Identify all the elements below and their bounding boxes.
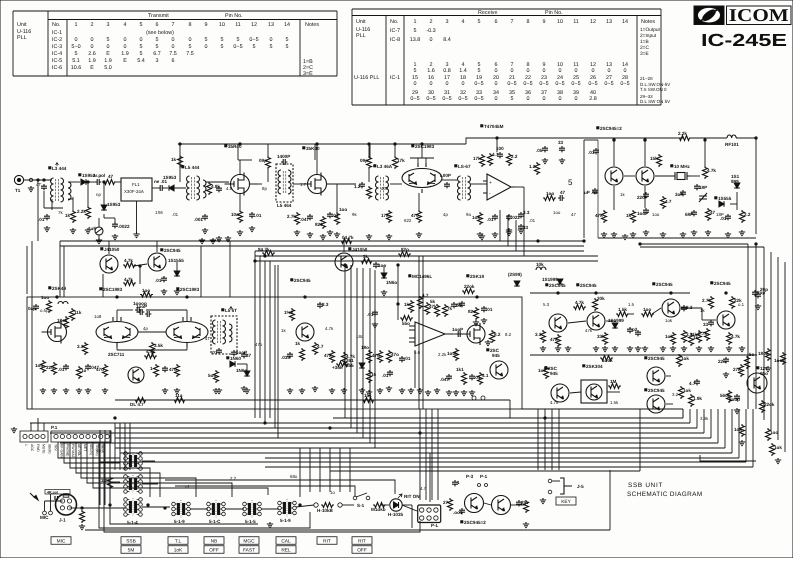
svg-text:5: 5 [511, 96, 514, 102]
diode D6 [174, 271, 180, 276]
svg-text:Notes: Notes [641, 19, 655, 25]
resistor R73 20k [593, 298, 598, 311]
resistor R89 100k [600, 356, 613, 361]
svg-text:2.2k: 2.2k [678, 131, 687, 136]
resistor R67 820 [474, 307, 479, 320]
svg-text:0: 0 [575, 68, 578, 74]
svg-text:40k: 40k [381, 186, 389, 191]
svg-text:47: 47 [571, 212, 576, 217]
svg-text:5-1-5: 5-1-5 [245, 519, 256, 524]
svg-text:1.6: 1.6 [427, 68, 435, 74]
svg-text:0: 0 [527, 68, 530, 74]
svg-text:5: 5 [286, 44, 289, 50]
svg-text:J41050: J41050 [104, 247, 120, 252]
svg-text:2SC1983: 2SC1983 [180, 287, 200, 292]
svg-text:.01: .01 [255, 213, 262, 218]
svg-text:1k: 1k [65, 213, 71, 218]
resistor R2 47 [103, 180, 116, 185]
resistor R32 84.7k [262, 251, 275, 256]
label box OFF2 [352, 546, 372, 554]
transformer L1 L3-444 [51, 178, 54, 202]
svg-text:84.7k: 84.7k [258, 247, 270, 252]
wire mid bus 4 [255, 255, 598, 257]
svg-text:47o: 47o [96, 367, 104, 372]
capacitor C31 .01 [725, 214, 731, 220]
wire bus left drops [59, 241, 61, 297]
svg-text:2SK304: 2SK304 [586, 364, 603, 369]
svg-text:1400P: 1400P [277, 154, 290, 159]
fet Q1 3SR40 [225, 173, 250, 196]
svg-text:-0.3: -0.3 [426, 28, 435, 34]
svg-text:2: 2 [91, 22, 94, 28]
svg-text:1k: 1k [281, 328, 286, 333]
wire strip drop 7 [93, 442, 268, 495]
svg-text:.01: .01 [487, 217, 494, 222]
resistor R95 220 [723, 357, 729, 363]
diode D2 1S953 [164, 187, 168, 189]
svg-text:1k: 1k [693, 335, 699, 340]
svg-text:33k: 33k [597, 334, 605, 339]
svg-text:1o8: 1o8 [94, 314, 102, 319]
svg-text:2.2k: 2.2k [77, 209, 86, 214]
svg-text:22o: 22o [718, 359, 726, 364]
svg-text:J41050: J41050 [352, 247, 368, 252]
resistor R78 22k [730, 296, 735, 309]
ground [408, 388, 414, 394]
svg-text:1ook: 1ook [602, 358, 613, 363]
resistor R98 560k [727, 390, 732, 403]
wire fet1 out [250, 183, 262, 185]
svg-text:4p: 4p [143, 326, 148, 331]
svg-text:82o: 82o [468, 309, 476, 314]
svg-text:L5 464: L5 464 [277, 203, 292, 208]
microphone connector J-1 [56, 494, 77, 515]
switch wafer S-1-A2 [129, 479, 131, 490]
svg-text:47: 47 [108, 174, 114, 179]
svg-text:05o: 05o [760, 371, 768, 376]
wire branch 35K40 [314, 144, 316, 160]
wire ift row feed [165, 480, 395, 494]
wire Q2 drain [316, 144, 318, 174]
fet Q10 2SK49 [42, 321, 67, 344]
wire bus y462 [100, 461, 746, 463]
resistor R55 4.7k [342, 352, 347, 365]
svg-text:8p: 8p [262, 186, 267, 191]
svg-text:OFF: OFF [209, 548, 219, 554]
wire bridge right [146, 309, 187, 311]
svg-text:1%k: 1%k [284, 310, 294, 315]
resistor R17 17k [480, 154, 485, 167]
svg-text:.01: .01 [58, 367, 65, 372]
fet Q24 2SK304 in box [581, 380, 607, 403]
ground [28, 186, 34, 192]
connector P-4 [418, 505, 441, 523]
vertical feed 180 [179, 144, 181, 182]
svg-text:5~0: 5~0 [71, 44, 80, 50]
label box LSB [121, 546, 141, 554]
svg-text:0: 0 [495, 96, 498, 102]
svg-text:3: 3 [156, 58, 159, 64]
transistor Q25 2SC945 [647, 367, 665, 385]
svg-text:0: 0 [575, 96, 578, 102]
label box USB [121, 537, 141, 545]
connector strip J2 [20, 431, 48, 442]
svg-text:8: 8 [189, 22, 192, 28]
resistor R45 3.3 [83, 342, 88, 355]
wire mid bus 2 [60, 245, 584, 247]
filter FL1 X30F-24A [121, 178, 152, 201]
capacitor C16 .022 [506, 214, 512, 220]
wire osc collector [613, 140, 615, 166]
wire top bus to right edge [736, 138, 756, 234]
resistor R6 100 [238, 210, 243, 223]
transformer T4 L3-46A [376, 176, 379, 200]
svg-text:0: 0 [91, 44, 94, 50]
resistor R15 470 [417, 210, 422, 223]
capacitor C54 .01 [469, 374, 475, 380]
resistor R50 500 [214, 370, 219, 383]
ground [540, 498, 546, 504]
capacitor C2 .01 [44, 214, 50, 220]
resistor R94 1.9k [689, 394, 694, 407]
svg-text:10a: 10a [231, 212, 239, 217]
resistor R53 1k [300, 348, 305, 361]
switch wafer S-1-D [248, 504, 250, 515]
svg-text:10.6: 10.6 [71, 65, 82, 71]
capacitor C42 [241, 352, 247, 358]
svg-text:5: 5 [478, 68, 481, 74]
svg-text:MC1496L: MC1496L [412, 274, 432, 279]
svg-text:H-1035: H-1035 [388, 512, 404, 517]
svg-text:1.9k: 1.9k [693, 396, 702, 401]
svg-text:0: 0 [189, 37, 192, 43]
resistor R29 20p [755, 292, 761, 298]
svg-text:PLL: PLL [356, 33, 366, 39]
resistor R62 4.7 [418, 296, 423, 309]
svg-text:3.3: 3.3 [686, 305, 693, 310]
svg-text:18P: 18P [716, 212, 724, 217]
svg-text:5-1-9: 5-1-9 [280, 518, 291, 523]
svg-text:220P: 220P [637, 195, 648, 200]
wire inner bias line [115, 399, 510, 401]
resistor R57 180 [367, 350, 372, 363]
svg-text:2.6: 2.6 [88, 51, 96, 57]
svg-text:0: 0 [172, 37, 175, 43]
wire bus y433 [50, 432, 704, 434]
svg-text:IC-6: IC-6 [52, 65, 62, 71]
wire top supply bus right [466, 138, 684, 144]
capacitor C36 .047 [85, 364, 91, 370]
svg-text:68P: 68P [685, 212, 693, 217]
resistor R60 550 [400, 316, 413, 321]
resistor R77 2.7k [709, 296, 714, 309]
svg-text:0~5: 0~5 [571, 81, 580, 87]
resistor R46 3.3k [150, 342, 155, 355]
svg-text:4.7k: 4.7k [550, 400, 559, 405]
svg-text:8oop: 8oop [729, 397, 740, 402]
svg-text:.001: .001 [194, 217, 203, 222]
wire q8 down [102, 274, 104, 297]
capacitor C63 1000P [135, 307, 141, 313]
label box T.L [168, 537, 188, 545]
svg-text:4.7: 4.7 [420, 486, 427, 491]
wire T4 out [390, 183, 402, 185]
svg-text:SSB: SSB [126, 539, 136, 545]
transistor Q18 2SC945 [490, 361, 508, 379]
transistor Q19 2SC945 [549, 314, 567, 332]
svg-text:5: 5 [75, 51, 78, 57]
wire bundle link right [509, 400, 511, 418]
dual transistor Q13 Q14 2SC711b [166, 317, 208, 347]
transistor Q16 2SC945 [296, 323, 314, 341]
resistor R80 2.7k [705, 328, 710, 341]
resistor R102 27 [448, 498, 453, 511]
svg-text:1ok: 1ok [538, 368, 546, 373]
resistor R87 3.3 [541, 330, 546, 343]
wire af mid bus [530, 354, 757, 356]
trimmer C29 [699, 193, 707, 202]
svg-text:47o: 47o [255, 342, 263, 347]
svg-text:T1: T1 [15, 188, 21, 193]
wire ellipse tops bridge [116, 310, 118, 321]
resistor R88 47k [556, 334, 561, 347]
svg-text:47o: 47o [391, 352, 399, 357]
svg-text:MIC: MIC [40, 515, 49, 520]
resistor network 1S1555 [336, 362, 349, 367]
svg-text:5.0: 5.0 [104, 65, 112, 71]
svg-text:1: 1 [457, 480, 460, 485]
resistor R51 100 top [140, 292, 153, 297]
svg-text:2op: 2op [757, 290, 765, 295]
svg-text:.01: .01 [404, 356, 411, 361]
svg-text:2SC945: 2SC945 [294, 278, 311, 283]
resistor R74 1.5k [616, 312, 629, 317]
transistor Q15 small [128, 367, 144, 383]
svg-text:2.2: 2.2 [744, 212, 751, 217]
svg-text:IC-3: IC-3 [52, 44, 62, 50]
ground [473, 320, 479, 326]
resistor R86 33k [603, 332, 608, 345]
ground row af [540, 346, 546, 352]
svg-text:Pin No.: Pin No. [225, 13, 243, 19]
svg-text:MET: MET [83, 444, 87, 451]
svg-text:1oo: 1oo [770, 430, 778, 435]
capacitor C45 47k [330, 350, 335, 363]
potentiometer VR2 H-10kB [314, 503, 318, 507]
label box REL [276, 546, 296, 554]
svg-text:1oo: 1oo [546, 191, 554, 196]
capacitor C17 100 [497, 152, 503, 158]
svg-text:.01: .01 [382, 373, 389, 378]
svg-text:3: 3 [446, 19, 449, 25]
svg-text:2SC1983: 2SC1983 [415, 144, 435, 149]
svg-text:1oo: 1oo [142, 288, 150, 293]
wire bundle verticals left [114, 423, 116, 470]
svg-text:5oo: 5oo [208, 373, 216, 378]
resistor R54 4.7 [313, 342, 318, 355]
svg-text:1: 1 [150, 366, 153, 371]
svg-text:RF101: RF101 [725, 142, 739, 147]
wire bus y458 [265, 457, 739, 459]
resistor R82 4.7k [727, 332, 732, 345]
resistor R69 100k [454, 348, 459, 361]
resistor R28 2.2 [740, 210, 745, 223]
svg-text:22ok: 22ok [764, 402, 775, 407]
svg-text:18P: 18P [699, 185, 707, 190]
svg-text:FWD: FWD [36, 444, 40, 452]
ground [11, 427, 17, 433]
label box RIT1 [317, 537, 337, 545]
capacitor C57 [635, 330, 641, 336]
svg-text:5: 5 [414, 28, 417, 34]
capacitor C52 100P [456, 331, 462, 337]
svg-text:35K40: 35K40 [306, 146, 320, 151]
svg-text:3.3: 3.3 [535, 332, 542, 337]
capacitor C46 .01 [399, 356, 405, 362]
carrier osc box [598, 140, 756, 238]
resistor R47 4.7k [144, 354, 157, 359]
svg-text:2SC945: 2SC945 [580, 283, 597, 288]
svg-text:4p: 4p [443, 212, 448, 217]
svg-text:0: 0 [75, 37, 78, 43]
svg-text:0ap: 0ap [28, 306, 36, 311]
svg-text:(2S99): (2S99) [508, 272, 522, 277]
wire bundle verticals mid [299, 448, 301, 492]
svg-text:1=B: 1=B [640, 39, 649, 45]
svg-text:IC-4: IC-4 [52, 51, 62, 57]
svg-text:7: 7 [511, 19, 514, 25]
svg-text:PW(NB): PW(NB) [65, 444, 69, 456]
svg-text:0~5: 0~5 [604, 81, 613, 87]
svg-text:1.2: 1.2 [354, 184, 361, 189]
resistor R107 DL4.7 [134, 398, 147, 403]
svg-text:8.2: 8.2 [494, 332, 501, 337]
svg-text:3.3: 3.3 [322, 302, 329, 307]
resistor R109 15k [362, 398, 375, 403]
capacitor C38 1000P [145, 311, 151, 317]
svg-text:FAST: FAST [243, 548, 255, 554]
svg-text:3=E: 3=E [640, 51, 649, 57]
svg-text:X30F-24A: X30F-24A [124, 189, 144, 194]
svg-text:FL1: FL1 [132, 182, 140, 187]
svg-text:9: 9 [543, 19, 546, 25]
wire T5 to opamp [471, 183, 487, 185]
capacitor C56 02 [627, 327, 633, 333]
wire pot wiring [342, 504, 354, 506]
svg-text:2.2k: 2.2k [438, 352, 447, 357]
svg-text:L00P: L00P [440, 173, 451, 178]
svg-text:5: 5 [221, 44, 224, 50]
wire vertical bundle 345 [344, 265, 346, 418]
svg-text:945: 945 [492, 353, 500, 358]
label box 10K [168, 546, 188, 554]
svg-text:12: 12 [251, 22, 257, 28]
capacitor C4 .01 [152, 187, 158, 189]
svg-text:5: 5 [189, 44, 192, 50]
svg-text:OFF: OFF [357, 548, 367, 554]
resistor R59 470 [387, 350, 392, 363]
resistor R8 2.7k [295, 212, 300, 225]
svg-text:470: 470 [411, 213, 419, 218]
svg-text:0: 0 [124, 37, 127, 43]
svg-text:PW MA2: PW MA2 [71, 444, 75, 457]
svg-text:0: 0 [495, 68, 498, 74]
svg-text:0~5: 0~5 [474, 96, 483, 102]
svg-text:0: 0 [124, 44, 127, 50]
svg-text:04.7k: 04.7k [342, 235, 354, 240]
svg-text:MUTE: MUTE [42, 444, 46, 454]
svg-text:7.5: 7.5 [186, 51, 194, 57]
wire vertical drops mid [254, 251, 256, 418]
resistor R100 3.2k [108, 476, 113, 489]
resistor R64 5k [435, 304, 440, 317]
svg-text:5: 5 [107, 37, 110, 43]
pin junction [29, 178, 32, 181]
shield box SSB IF section [27, 297, 522, 409]
svg-text:.047: .047 [300, 217, 309, 222]
svg-text:1.2: 1.2 [529, 164, 536, 169]
svg-text:1ook: 1ook [447, 351, 458, 356]
svg-text:5: 5 [140, 22, 143, 28]
svg-text:0: 0 [543, 96, 546, 102]
diode D4 1S555 [719, 201, 724, 207]
resistor R103 [524, 500, 529, 513]
resistor R18 4.7 [488, 153, 493, 166]
capacitor C24 uP.01 [592, 188, 598, 194]
svg-text:T.S SW.ON 0: T.S SW.ON 0 [640, 87, 667, 92]
wire 1496 out [453, 333, 462, 335]
resistor R33 04.7k [340, 239, 353, 244]
svg-text:5: 5 [156, 37, 159, 43]
svg-text:o.5p: o.5p [40, 308, 49, 313]
ground [479, 234, 485, 240]
capacitor C30 68P [691, 210, 697, 216]
svg-text:2=Input: 2=Input [640, 33, 657, 39]
capacitor C55 20p [752, 290, 758, 296]
ground [775, 458, 781, 464]
svg-text:D.L SW ON 5V: D.L SW ON 5V [640, 99, 670, 104]
resistor R52 1k [290, 308, 295, 321]
resistor R43 10 [77, 366, 82, 379]
svg-text:82o: 82o [401, 247, 409, 252]
ground [453, 390, 459, 396]
svg-text:IC-2: IC-2 [52, 37, 62, 43]
svg-text:RIT: RIT [358, 539, 366, 545]
svg-text:15k: 15k [650, 156, 658, 161]
transformer T5 LS-67 [458, 176, 461, 200]
capacitor C34 6.8p [33, 304, 39, 310]
svg-text:9k: 9k [352, 212, 357, 217]
svg-text:0: 0 [495, 81, 498, 87]
resistor R34 4.7k [123, 263, 136, 268]
wire right hook [700, 455, 756, 461]
svg-text:P-L: P-L [431, 523, 439, 528]
ground [434, 388, 440, 394]
capacitor C20 .01 [542, 146, 548, 152]
svg-text:1.5: 1.5 [628, 302, 635, 307]
svg-text:1o: 1o [330, 490, 335, 495]
svg-text:0: 0 [462, 81, 465, 87]
wire 1496 bottom [414, 350, 416, 388]
resistor R35 4.7k b [123, 281, 136, 286]
resistor R7 09p [266, 156, 271, 169]
svg-text:5-1-9: 5-1-9 [174, 519, 185, 524]
svg-text:1: 1 [24, 444, 28, 446]
resistor R56 16 [367, 370, 372, 383]
svg-text:5: 5 [156, 44, 159, 50]
capacitor C12 .01 [327, 212, 333, 218]
diode D11 1S99 [514, 281, 520, 286]
